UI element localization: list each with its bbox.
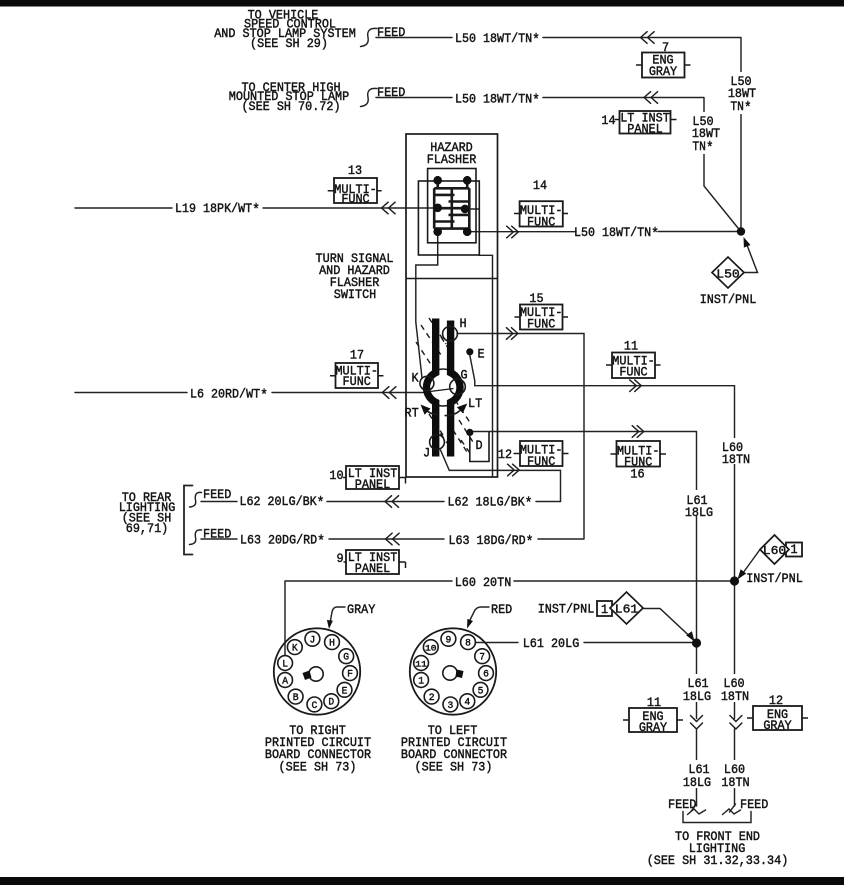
svg-text:(SEE SH 73): (SEE SH 73) <box>415 760 493 775</box>
svg-text:18TN: 18TN <box>722 452 750 467</box>
svg-text:12: 12 <box>498 447 512 462</box>
svg-text:7: 7 <box>479 652 485 664</box>
svg-text:1: 1 <box>418 676 424 688</box>
svg-text:RT: RT <box>405 406 419 421</box>
svg-text:L60 20TN: L60 20TN <box>455 575 512 590</box>
svg-text:10: 10 <box>425 644 437 654</box>
svg-text:FEED: FEED <box>203 527 232 542</box>
svg-text:E: E <box>478 347 485 362</box>
svg-text:FEED: FEED <box>740 797 769 812</box>
svg-text:PANEL: PANEL <box>627 122 662 137</box>
svg-text:FEED: FEED <box>668 797 697 812</box>
svg-text:FUNC: FUNC <box>527 214 556 229</box>
svg-text:FLASHER: FLASHER <box>427 152 477 167</box>
svg-text:1: 1 <box>790 542 797 557</box>
svg-text:D: D <box>476 438 483 453</box>
svg-text:9: 9 <box>446 634 452 646</box>
svg-text:18LG: 18LG <box>683 689 711 704</box>
svg-text:K: K <box>292 643 298 655</box>
svg-text:FUNC: FUNC <box>619 365 648 380</box>
svg-text:J: J <box>423 446 430 461</box>
svg-text:12: 12 <box>769 693 783 708</box>
svg-text:L61 20LG: L61 20LG <box>523 636 580 651</box>
svg-text:14: 14 <box>533 178 547 193</box>
svg-text:INST/PNL: INST/PNL <box>746 571 803 586</box>
svg-text:GRAY: GRAY <box>763 718 792 733</box>
svg-text:5: 5 <box>478 685 484 697</box>
svg-text:9: 9 <box>336 551 343 566</box>
svg-text:15: 15 <box>529 291 543 306</box>
svg-text:FEED: FEED <box>203 487 232 502</box>
svg-text:FEED: FEED <box>377 85 406 100</box>
svg-text:3: 3 <box>448 700 454 712</box>
svg-text:FEED: FEED <box>377 25 406 40</box>
svg-text:PANEL: PANEL <box>355 561 390 576</box>
svg-text:FUNC: FUNC <box>343 374 372 389</box>
svg-text:G: G <box>461 368 468 383</box>
svg-text:SWITCH: SWITCH <box>334 287 377 302</box>
svg-text:13: 13 <box>348 163 362 178</box>
svg-text:GRAY: GRAY <box>639 720 668 735</box>
svg-text:F: F <box>347 669 353 681</box>
svg-text:4: 4 <box>464 697 470 709</box>
svg-text:(SEE SH 29): (SEE SH 29) <box>250 36 328 51</box>
svg-text:11: 11 <box>647 695 661 710</box>
svg-text:10: 10 <box>329 468 343 483</box>
svg-text:17: 17 <box>350 348 364 363</box>
svg-text:C: C <box>312 700 318 712</box>
svg-text:11: 11 <box>415 660 427 670</box>
svg-text:L61: L61 <box>615 603 639 617</box>
svg-text:G: G <box>343 652 349 664</box>
svg-text:69,71): 69,71) <box>126 521 169 536</box>
svg-text:H: H <box>460 316 467 331</box>
svg-text:INST/PNL: INST/PNL <box>700 292 757 307</box>
svg-text:A: A <box>282 676 288 688</box>
svg-text:(SEE SH 70.72): (SEE SH 70.72) <box>241 99 340 114</box>
svg-text:(SEE SH 73): (SEE SH 73) <box>279 760 357 775</box>
svg-text:B: B <box>293 692 299 704</box>
svg-text:1: 1 <box>601 602 608 617</box>
svg-text:GRAY: GRAY <box>649 64 678 79</box>
svg-text:GRAY: GRAY <box>347 602 376 617</box>
svg-text:L: L <box>282 659 288 671</box>
svg-text:18LG: 18LG <box>685 505 713 520</box>
svg-text:6: 6 <box>483 669 489 681</box>
svg-text:11: 11 <box>624 339 638 354</box>
svg-text:K: K <box>412 371 419 386</box>
svg-text:J: J <box>310 634 316 646</box>
svg-text:PANEL: PANEL <box>355 477 390 492</box>
svg-text:L50: L50 <box>716 268 740 282</box>
svg-text:FUNC: FUNC <box>341 192 370 207</box>
svg-text:LT: LT <box>468 396 482 411</box>
svg-text:E: E <box>342 685 348 697</box>
svg-text:INST/PNL: INST/PNL <box>538 602 595 617</box>
svg-text:18LG: 18LG <box>683 775 711 790</box>
svg-text:FUNC: FUNC <box>527 317 556 332</box>
svg-text:RED: RED <box>491 602 512 617</box>
svg-text:H: H <box>329 638 335 650</box>
svg-text:D: D <box>328 697 334 709</box>
svg-text:14: 14 <box>601 113 615 128</box>
svg-text:18TN: 18TN <box>721 689 749 704</box>
svg-text:(SEE SH 31.32,33.34): (SEE SH 31.32,33.34) <box>647 853 789 868</box>
svg-text:18TN: 18TN <box>721 775 749 790</box>
svg-text:L60: L60 <box>763 544 787 558</box>
svg-text:2: 2 <box>429 692 435 704</box>
svg-text:16: 16 <box>630 467 644 482</box>
svg-text:FUNC: FUNC <box>527 454 556 469</box>
svg-text:8: 8 <box>465 638 471 650</box>
